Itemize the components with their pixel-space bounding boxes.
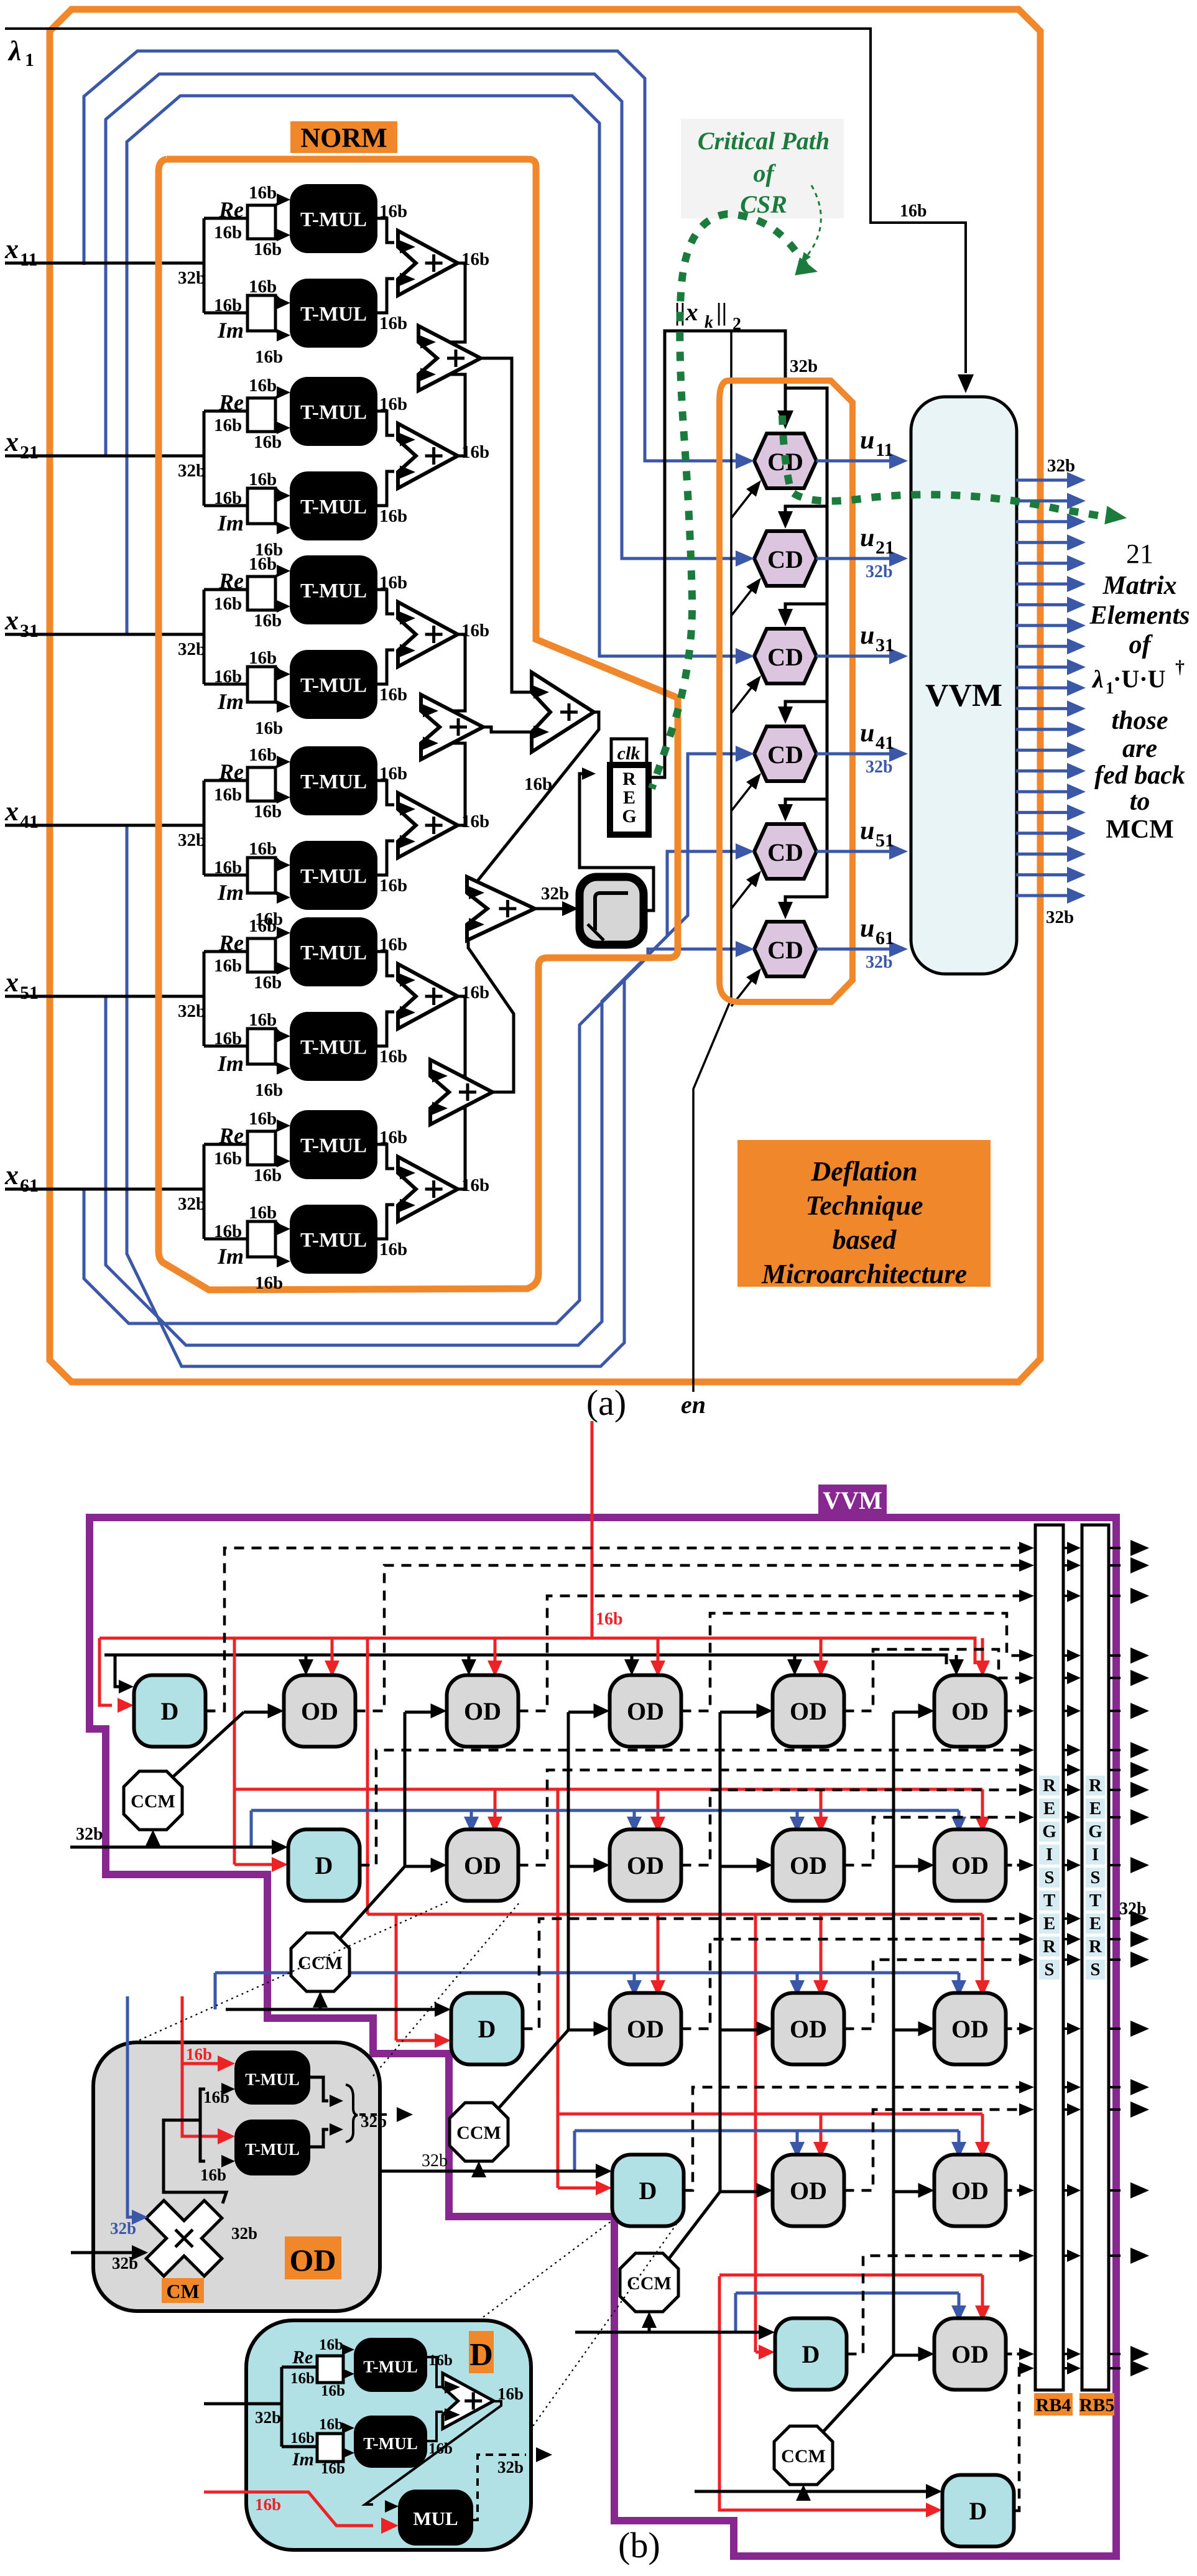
wire arrow into OD row3 col4 [757, 2021, 773, 2036]
wire arrow into OD row2 col3 [594, 1858, 610, 1873]
svg-text:16b: 16b [379, 1047, 407, 1067]
svg-text:T-MUL: T-MUL [300, 209, 367, 231]
svg-text:T-MUL: T-MUL [363, 2358, 418, 2376]
D detail inset box [246, 2320, 531, 2550]
group x41 Im splitter box [247, 858, 290, 904]
svg-text:61: 61 [876, 928, 894, 948]
svg-text:16b: 16b [255, 347, 283, 367]
wire black bus row3 [226, 2002, 451, 2017]
svg-text:Deflation: Deflation [810, 1156, 917, 1187]
svg-text:R: R [1043, 1937, 1056, 1957]
svg-text:OD: OD [790, 2015, 827, 2043]
wire dashed output row3 block2 [682, 1933, 1035, 2029]
group x61 Re splitter box [247, 1119, 290, 1167]
T-MUL x51 Im [290, 1012, 377, 1080]
svg-text:OD: OD [951, 2340, 989, 2368]
svg-text:T-MUL: T-MUL [300, 675, 367, 697]
wire arrow into OD row1 col5 [918, 1703, 935, 1718]
svg-text:16b: 16b [254, 1165, 282, 1185]
svg-text:MCM: MCM [1106, 815, 1174, 844]
svg-text:D: D [802, 2340, 820, 2368]
svg-text:NORM: NORM [300, 123, 387, 153]
REG register [610, 765, 649, 835]
OD inset output brace and arrow [310, 2077, 413, 2147]
OD inset CM multiplier [146, 2200, 222, 2276]
svg-text:G: G [1088, 1822, 1102, 1842]
green dotted critical path curve [652, 214, 818, 789]
D inset red 16b input [204, 2492, 399, 2534]
label lambda1 [7, 35, 34, 70]
svg-text:G: G [622, 806, 636, 827]
svg-text:OD: OD [627, 2015, 664, 2043]
wire input x21 [5, 456, 206, 481]
wire dashed output row1 block4 [682, 1613, 1035, 1711]
svg-text:D: D [478, 2015, 496, 2043]
svg-text:Technique: Technique [805, 1190, 923, 1221]
wire CCM4 diagonal output [668, 2192, 720, 2260]
block OD row1 col1 [284, 1675, 356, 1747]
svg-text:Re: Re [218, 1123, 244, 1148]
svg-text:T-MUL: T-MUL [300, 866, 367, 888]
svg-text:32b: 32b [866, 758, 893, 777]
svg-text:E: E [1043, 1914, 1055, 1934]
svg-text:D: D [315, 1851, 333, 1879]
svg-text:Matrix: Matrix [1102, 572, 1176, 600]
wire blue arrow into CD6 [736, 941, 754, 957]
svg-text:u: u [860, 621, 874, 650]
block D row1 [134, 1675, 206, 1747]
group x11 branch wire [204, 218, 247, 313]
svg-text:Re: Re [218, 759, 244, 784]
label (a) [586, 1383, 626, 1423]
svg-text:51: 51 [876, 830, 894, 851]
CD6 divider hexagon [754, 922, 816, 976]
wire x11 T-MUL outputs to adder [377, 218, 394, 313]
svg-text:16b: 16b [524, 774, 552, 794]
svg-text:(a): (a) [586, 1383, 626, 1423]
svg-text:32b: 32b [1119, 1899, 1147, 1919]
block D row5 [775, 2319, 847, 2390]
wire limiter to REG [580, 767, 654, 910]
svg-text:are: are [1122, 734, 1157, 763]
wire x41 T-MUL outputs to adder [377, 781, 394, 875]
svg-text:S: S [1044, 1960, 1054, 1980]
svg-text:16b: 16b [379, 506, 407, 526]
label Critical Path of CSR [681, 119, 844, 218]
svg-text:CCM: CCM [456, 2123, 501, 2143]
dotted leader OD inset to OD block [134, 1901, 521, 2076]
svg-text:CD: CD [767, 838, 803, 866]
T-MUL x11 Im [290, 279, 377, 347]
svg-text:32b: 32b [112, 2254, 138, 2273]
svg-text:16b: 16b [254, 611, 282, 631]
label en [681, 1391, 706, 1419]
svg-text:32b: 32b [866, 953, 893, 972]
svg-text:x: x [4, 234, 19, 264]
OD inset black input 32b [71, 2245, 148, 2273]
wire u11 CD1 to VVM [816, 453, 908, 469]
svg-text:u: u [860, 817, 874, 845]
CCM2 octagon [291, 1933, 349, 1991]
T-MUL x41 Im [290, 841, 377, 909]
wire blue bus row3 [215, 1973, 966, 2009]
svg-text:16b: 16b [254, 973, 282, 993]
svg-text:16b: 16b [428, 2352, 453, 2369]
wire column vertical from CCM3 junction [568, 1712, 598, 2030]
wire u31 CD3 to VVM [816, 648, 908, 664]
wire dashed output row3 block1 [523, 1912, 1035, 2029]
svg-text:16b: 16b [249, 916, 277, 936]
label x51 [4, 967, 39, 1003]
block OD row2 col3 [610, 1830, 682, 1901]
svg-text:16b: 16b [249, 376, 277, 396]
label u21 [860, 524, 894, 558]
svg-text:41: 41 [876, 733, 894, 753]
svg-text:16b: 16b [214, 667, 242, 687]
svg-text:R: R [622, 769, 636, 789]
D inset T-MUL Im [354, 2416, 427, 2467]
wire CCM1 input arrow from bus [146, 1830, 160, 1847]
svg-text:32b: 32b [541, 884, 569, 904]
svg-text:to: to [1130, 787, 1150, 816]
svg-text:16b: 16b [214, 488, 242, 508]
svg-text:||x: ||x [675, 298, 698, 326]
svg-text:16b: 16b [249, 648, 277, 668]
wire dashed output row1 block5 [844, 1649, 1035, 1711]
svg-text:D: D [161, 1697, 179, 1725]
D inset input branch [204, 2367, 317, 2447]
svg-text:CD: CD [767, 545, 803, 573]
group x31 Im splitter box [247, 667, 290, 713]
svg-text:32b: 32b [178, 461, 206, 481]
svg-text:31: 31 [876, 635, 894, 656]
svg-text:16b: 16b [214, 223, 242, 243]
svg-text:T: T [1043, 1891, 1055, 1911]
OD inset red input 16b [182, 1996, 235, 2144]
group x11 Re splitter box [247, 193, 290, 241]
wire CD top distribution [778, 388, 827, 919]
wire dashed output row5 block1 [847, 2249, 1035, 2354]
wire junction CCM3 horizontal [568, 2029, 598, 2032]
adder A1 [398, 231, 489, 295]
svg-text:16b: 16b [379, 1239, 407, 1259]
CCM4 octagon [620, 2253, 678, 2312]
CD1 divider hexagon [754, 433, 816, 488]
svg-text:those: those [1111, 707, 1168, 735]
svg-text:VVM: VVM [823, 1486, 882, 1514]
block OD row2 col2 [447, 1830, 519, 1901]
block OD row1 col3 [610, 1675, 682, 1747]
REGISTERS bank RB4 [1035, 1525, 1063, 2390]
label Deflation Technique based Microarchitecture [737, 1140, 991, 1289]
wire input x51 [5, 996, 206, 1021]
wire arrow into OD row3 col3 [594, 2021, 610, 2036]
svg-text:CD: CD [767, 741, 803, 769]
svg-text:32b: 32b [76, 1825, 103, 1844]
block OD row3 col5 [935, 1993, 1006, 2065]
wire F1 output to limiter [535, 901, 578, 916]
svg-text:11: 11 [20, 249, 37, 270]
wire blue feedback u11 loop (left top) [84, 51, 737, 461]
svg-text:Im: Im [217, 318, 244, 343]
group x61 branch wire [204, 1144, 247, 1239]
svg-text:R: R [1089, 1937, 1102, 1957]
svg-text:21: 21 [1126, 539, 1153, 569]
block OD row1 col5 [935, 1675, 1006, 1747]
block OD row3 col3 [610, 1993, 682, 2065]
svg-text:16b: 16b [255, 1080, 283, 1100]
wire arrow into OD row4 col4 [757, 2183, 773, 2198]
svg-text:x: x [4, 1160, 19, 1190]
adder A6 [398, 1157, 489, 1221]
wire arrow into OD row1 col3 [594, 1703, 610, 1718]
OD detail inset box [93, 2042, 380, 2311]
wire black bus row2 [70, 1825, 288, 1855]
label (b) [618, 2525, 660, 2565]
wire x21 T-MUL outputs to adder [377, 411, 394, 506]
svg-text:16b: 16b [214, 415, 242, 435]
OD inset T-MUL 1 [235, 2051, 310, 2104]
svg-text:en: en [681, 1391, 706, 1419]
wire red distribution row3 [367, 1638, 990, 2048]
svg-text:λ: λ [1091, 665, 1104, 693]
D inset adder [427, 2357, 524, 2441]
svg-text:31: 31 [20, 621, 39, 641]
svg-text:16b: 16b [249, 554, 277, 574]
svg-text:16b: 16b [255, 1273, 283, 1293]
CCM3 octagon [450, 2103, 508, 2161]
block OD row1 col2 [447, 1675, 519, 1747]
svg-text:D: D [469, 2337, 493, 2373]
group x51 labels [214, 916, 407, 1100]
svg-text:fed back: fed back [1094, 761, 1185, 790]
svg-text:16b: 16b [254, 432, 282, 452]
svg-text:S: S [1090, 1868, 1100, 1888]
group x61 Im splitter box [247, 1221, 290, 1267]
svg-text:32b: 32b [178, 830, 206, 850]
wire A5,A6 outputs to adder B3 [438, 996, 465, 1189]
svg-text:clk: clk [617, 743, 640, 764]
wire arrow into OD row2 col4 [757, 1858, 773, 1873]
svg-text:Im: Im [217, 689, 244, 714]
svg-text:CCM: CCM [298, 1953, 343, 1973]
svg-text:Re: Re [218, 197, 244, 222]
svg-text:x: x [4, 967, 19, 998]
svg-text:R: R [1043, 1776, 1056, 1795]
group x41 branch wire [204, 781, 247, 875]
svg-text:16b: 16b [200, 2166, 226, 2184]
clk box [611, 739, 647, 765]
svg-text:Im: Im [217, 1051, 244, 1076]
svg-text:u: u [860, 914, 874, 943]
green dotted critical path through CD1 to output [782, 415, 1127, 524]
block OD row5 col5 [935, 2319, 1006, 2390]
svg-text:16b: 16b [254, 239, 282, 259]
wire CCM5 diagonal output [822, 2355, 894, 2433]
wire arrow into OD row3 col5 [918, 2021, 935, 2036]
svg-text:u: u [860, 426, 874, 455]
NORM label [290, 121, 397, 153]
svg-text:λ: λ [7, 35, 21, 67]
OD inset CM label [162, 2278, 204, 2303]
svg-text:Re: Re [218, 930, 244, 955]
wire red bus row1 [99, 1638, 990, 1713]
svg-text:16b: 16b [379, 313, 407, 333]
svg-text:†: † [1175, 657, 1185, 677]
group x51 branch wire [204, 952, 247, 1046]
svg-text:32b: 32b [1046, 907, 1074, 927]
wire blue arrow into CD4 [736, 746, 754, 762]
svg-text:Im: Im [217, 880, 244, 905]
block OD row4 col5 [935, 2155, 1006, 2226]
wire input x61 [5, 1189, 206, 1214]
label x21 [4, 427, 39, 463]
outer orange frame of Deflation microarchitecture [50, 9, 1040, 1382]
adder A3 [398, 602, 489, 667]
CCM1 octagon [124, 1771, 182, 1830]
wire register transfer and output arrows [1063, 1540, 1149, 2376]
label 32b at CD1 top [790, 356, 818, 376]
svg-text:16b: 16b [249, 470, 277, 489]
wire red distribution row2 [234, 1638, 990, 1872]
T-MUL x61 Re [290, 1111, 377, 1179]
block OD row3 col4 [773, 1993, 844, 2065]
OD inset 32b label at CM output [231, 2224, 257, 2243]
svg-text:||: || [716, 298, 728, 326]
svg-text:Microarchitecture: Microarchitecture [761, 1259, 967, 1289]
svg-text:OD: OD [951, 1697, 989, 1725]
svg-text:based: based [833, 1225, 897, 1255]
wire u41 CD4 to VVM [816, 746, 908, 762]
svg-text:OD: OD [790, 1697, 827, 1725]
wire blue feedback u21 loop [106, 74, 737, 558]
label 32b u61 [866, 953, 893, 972]
svg-text:T: T [1089, 1891, 1101, 1911]
wire solid output row4 last OD to registers [1006, 2184, 1035, 2197]
wire A3,A4 outputs to adder B2 [428, 634, 465, 825]
CD2 divider hexagon [754, 531, 816, 586]
svg-text:VVM: VVM [925, 678, 1002, 713]
wire B2 output to adder C1 [483, 727, 539, 732]
svg-text:OD: OD [464, 1697, 501, 1725]
svg-text:Im: Im [217, 511, 244, 535]
svg-text:OD: OD [290, 2243, 336, 2277]
svg-text:D: D [969, 2497, 987, 2525]
wire blue arrow into CD5 [736, 843, 754, 859]
CD3 divider hexagon [754, 629, 816, 683]
svg-text:32b: 32b [231, 2224, 257, 2243]
block OD row4 col4 [773, 2155, 844, 2226]
svg-text:T-MUL: T-MUL [300, 580, 367, 603]
wire blue bus row5 [736, 2293, 966, 2332]
svg-text:16b: 16b [900, 202, 927, 221]
OD inset blue input 32b [110, 1996, 148, 2238]
svg-text:16b: 16b [214, 785, 242, 805]
wire input x31 [5, 634, 206, 659]
svg-text:Re: Re [218, 568, 244, 593]
label 32b u21 [866, 562, 893, 581]
svg-text:32b: 32b [1047, 456, 1075, 476]
svg-text:32b: 32b [178, 1001, 206, 1021]
svg-text:16b: 16b [249, 839, 277, 859]
wire arrow into OD row2 col5 [918, 1858, 935, 1873]
OD inset CM output to T-MUL wires [164, 2083, 235, 2203]
svg-text:41: 41 [20, 812, 39, 832]
svg-text:16b: 16b [379, 876, 407, 896]
svg-text:32b: 32b [790, 356, 818, 376]
svg-text:Critical Path: Critical Path [698, 127, 830, 155]
svg-text:32b: 32b [110, 2219, 136, 2238]
svg-text:T-MUL: T-MUL [300, 1037, 367, 1059]
wire u51 CD5 to VVM [816, 843, 908, 859]
wire B1 output down to adder C1 [481, 358, 539, 692]
svg-text:T-MUL: T-MUL [300, 1135, 367, 1157]
label 21 Matrix Elements text block [1089, 539, 1190, 844]
wire junction CCM2 horizontal [405, 1865, 435, 1868]
svg-text:D: D [639, 2177, 657, 2205]
group x41 labels [214, 745, 407, 929]
VVM label part b [818, 1485, 887, 1514]
svg-text:OD: OD [627, 1697, 664, 1725]
wire dashed output D6 to registers [1014, 2362, 1035, 2511]
wire en diagonal into CD2 [731, 578, 761, 616]
adder B2 [421, 695, 483, 759]
svg-text:CD: CD [767, 643, 803, 671]
NORM block orange boundary [159, 159, 678, 1290]
T-MUL x31 Re [290, 556, 377, 624]
svg-text:T-MUL: T-MUL [300, 496, 367, 519]
block OD row2 col5 [935, 1830, 1006, 1901]
wire dashed output row4 block1 [684, 2081, 1035, 2190]
svg-text:2: 2 [733, 315, 741, 334]
wire red distribution row6 [719, 2276, 942, 2518]
wire blue feedback u31 loop [127, 96, 737, 656]
svg-text:16b: 16b [214, 1029, 242, 1049]
wire dashed output row1 block3 [519, 1590, 1035, 1711]
wire red distribution row4 [558, 1789, 990, 2195]
svg-text:16b: 16b [214, 1149, 242, 1169]
label u41 [860, 719, 894, 753]
svg-text:(b): (b) [618, 2525, 660, 2565]
svg-text:61: 61 [20, 1175, 39, 1196]
svg-text:OD: OD [464, 1851, 501, 1879]
wire dashed output row1 block1 [206, 1542, 1035, 1711]
wire dashed output row2 block4 [844, 1811, 1035, 1865]
group x51 Re splitter box [247, 927, 290, 975]
svg-text:16b: 16b [249, 277, 277, 297]
T-MUL x31 Im [290, 651, 377, 718]
wire arrow into OD row5 col5 [918, 2347, 935, 2361]
wire A1,A2 outputs to adder B1 [426, 263, 465, 456]
svg-text:16b: 16b [290, 2430, 315, 2447]
wire 21 VVM output arrows 32b [1016, 456, 1086, 927]
wire black bus row5 [575, 2325, 775, 2340]
wire CCM4 input arrow from bus [642, 2312, 657, 2332]
wire CCM3 input arrow from bus [471, 2161, 486, 2177]
svg-text:R: R [1089, 1776, 1102, 1795]
group x21 Im splitter box [247, 488, 290, 534]
group x11 Im splitter box [247, 295, 290, 341]
svg-text:21: 21 [20, 442, 39, 463]
wire solid output row3 last OD to registers [1006, 2022, 1035, 2035]
svg-text:MUL: MUL [413, 2508, 458, 2529]
group x41 Re splitter box [247, 756, 290, 804]
adder B1 [418, 326, 481, 391]
svg-text:x: x [4, 796, 19, 827]
svg-text:·U·U: ·U·U [1113, 665, 1165, 693]
svg-text:E: E [623, 787, 635, 808]
svg-text:x: x [4, 427, 19, 457]
